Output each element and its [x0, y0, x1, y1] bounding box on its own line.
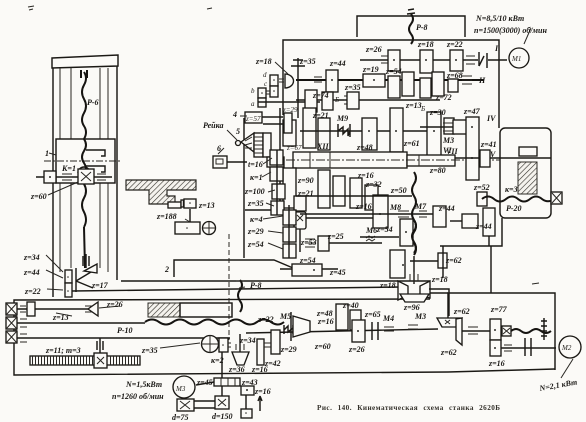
- svg-text:z=34: z=34: [23, 253, 40, 262]
- speed box top edge: [283, 40, 499, 128]
- wire wavy P-6 screw: [82, 72, 86, 139]
- svg-text:z=50: z=50: [390, 186, 407, 195]
- bevel pair z=62: [437, 318, 462, 327]
- svg-text:z=44: z=44: [475, 222, 492, 231]
- wire wavy inside box1: [82, 139, 86, 174]
- cluster M5: [257, 339, 264, 365]
- ratchet M9: [338, 124, 350, 137]
- gear stack right of labels: [270, 150, 283, 165]
- shaft III vertical end: [83, 254, 89, 268]
- svg-text:z=22: z=22: [446, 40, 463, 49]
- belt: [194, 400, 216, 402]
- svg-text:z=11; m=3: z=11; m=3: [45, 346, 81, 355]
- svg-text:d: d: [263, 71, 267, 79]
- svg-text:z=74: z=74: [312, 91, 329, 100]
- svg-text:z=16: z=16: [254, 387, 271, 396]
- bevel z=44: [483, 208, 495, 236]
- svg-text:z=52: z=52: [473, 183, 490, 192]
- motor M3: [173, 376, 195, 398]
- bracket clamp lower: [86, 166, 105, 172]
- wire wavy below box1: [82, 184, 86, 227]
- lower stack k4 z29 z54: [283, 210, 296, 225]
- LAYER: column: [16, 55, 122, 343]
- svg-text:z=54: z=54: [247, 240, 264, 249]
- coupling + wavy: [502, 326, 511, 336]
- svg-text:z=18: z=18: [431, 275, 448, 284]
- svg-text:z=54: z=54: [376, 225, 393, 234]
- svg-text:М2: М2: [561, 344, 572, 352]
- svg-text:z=35: z=35: [344, 83, 361, 92]
- svg-text:М8: М8: [389, 203, 401, 212]
- left wall gear stack: [283, 120, 296, 146]
- coupling box IV: [453, 120, 468, 134]
- gear z=52 + wavy P-20: [477, 192, 487, 206]
- input bevel cluster z=18 top-left: [285, 74, 294, 88]
- housing P-20 box: [500, 128, 551, 218]
- bevel z=60: [293, 316, 310, 337]
- gear z=30 cluster: [427, 112, 441, 160]
- clutch circle z=35: [202, 336, 219, 353]
- rack block: [254, 133, 263, 157]
- LAYER: feedbox: [213, 112, 296, 258]
- shaft M3 to coupling: [196, 382, 214, 385]
- handwheel 6: [213, 156, 227, 168]
- LAYER: speedbox: [258, 28, 562, 255]
- shaft z=45: [280, 268, 338, 270]
- bevel fork z=17: [76, 269, 96, 281]
- pulley d=75: [177, 399, 194, 411]
- marks M3: [408, 325, 418, 329]
- gear z=77 z=16: [490, 319, 501, 340]
- svg-text:z=45: z=45: [329, 268, 346, 277]
- shaft C y338: [17, 337, 230, 339]
- vertical shaft z=35: [297, 58, 299, 118]
- wavy M7: [412, 172, 416, 255]
- worm cone 5: [236, 141, 241, 146]
- svg-text:z=72: z=72: [435, 93, 452, 102]
- svg-text:VI: VI: [443, 146, 452, 155]
- coupling marks: [62, 174, 72, 180]
- svg-text:z=77: z=77: [490, 305, 508, 314]
- gear z=48: [362, 118, 377, 150]
- wire long shaft under box2: [72, 287, 402, 291]
- gear stack z34 z44 z22: [65, 270, 72, 283]
- svg-text:6: 6: [217, 144, 221, 153]
- svg-text:z=16: z=16: [317, 317, 334, 326]
- node centerline: [44, 160, 122, 162]
- svg-text:z=13: z=13: [52, 313, 69, 322]
- gear z=68 pair: [432, 72, 444, 96]
- arrow up: [258, 396, 262, 411]
- gear z=22 shaft I: [450, 50, 463, 71]
- gear z=48 z=16 cluster: [336, 304, 348, 330]
- svg-text:z=22: z=22: [257, 315, 274, 324]
- shaft III: [296, 99, 440, 101]
- svg-text:z=18: z=18: [417, 40, 434, 49]
- shaft under spindle: [296, 195, 412, 197]
- wire shaft out of column: [15, 305, 17, 343]
- shaft V to P-20: [455, 157, 551, 159]
- wire top wavy P-8: [409, 14, 413, 44]
- bracket clamp upper: [86, 150, 105, 156]
- P-20 internals: slide block: [519, 147, 537, 156]
- gear cluster left below spindle: [294, 196, 306, 211]
- gear z=47 tall: [466, 117, 479, 180]
- shaft B y323 wavy P-10: [17, 322, 145, 324]
- gear z=41 small: [480, 150, 490, 167]
- svg-text:a: a: [251, 100, 255, 108]
- gear z=72: [420, 78, 431, 98]
- top bracket box P-8: [357, 16, 465, 37]
- svg-text:1: 1: [45, 149, 49, 158]
- column rails: [52, 68, 54, 297]
- svg-text:М3: М3: [175, 385, 186, 393]
- V-fork z=18 z=18 z=96: [398, 281, 408, 300]
- coupling I: [466, 56, 475, 64]
- gear z=26 lower: [352, 320, 365, 342]
- svg-text:N=1,5кВт: N=1,5кВт: [125, 380, 162, 389]
- below-spindle gear row: [318, 170, 330, 208]
- bed outline: [14, 299, 555, 375]
- column cap: [52, 55, 118, 68]
- shaft K=1: [36, 176, 112, 178]
- svg-text:z=17: z=17: [91, 281, 109, 290]
- bevel fork down z=36: [232, 352, 249, 365]
- gear z=16 small: [241, 386, 254, 395]
- svg-text:d=75: d=75: [172, 413, 189, 422]
- svg-text:z=26: z=26: [365, 45, 382, 54]
- shaft a: [258, 101, 320, 103]
- gear z=44: [326, 70, 338, 92]
- pinion box III: [94, 353, 107, 368]
- svg-text:z=61: z=61: [403, 139, 420, 148]
- svg-text:IV: IV: [486, 114, 496, 123]
- lower right box: [448, 293, 555, 370]
- LAYER: bed: [6, 302, 581, 418]
- coupling M4: [372, 322, 378, 340]
- shaft I: [360, 59, 478, 61]
- svg-text:z=35: z=35: [141, 346, 158, 355]
- gear block z=19: [363, 74, 385, 87]
- svg-text:М7: М7: [414, 202, 427, 211]
- svg-text:М9: М9: [336, 114, 348, 123]
- svg-text:z=43: z=43: [241, 378, 258, 387]
- spindle XII: [293, 152, 407, 168]
- speck top-left: [28, 6, 34, 10]
- bevel z=26: [88, 302, 98, 316]
- svg-text:к=1: к=1: [250, 173, 263, 182]
- shaft M2 lower: [501, 347, 556, 349]
- hatched block bed left: [148, 303, 180, 317]
- svg-text:N=8,5/10 кВт: N=8,5/10 кВт: [475, 14, 524, 23]
- svg-text:Р-6: Р-6: [87, 98, 99, 107]
- svg-text:z=53: z=53: [300, 238, 317, 247]
- small box below z=16: [241, 409, 252, 418]
- svg-text:XII: XII: [316, 142, 329, 151]
- svg-text:z=62: z=62: [453, 307, 470, 316]
- svg-text:z=62: z=62: [440, 348, 457, 357]
- svg-text:z=13: z=13: [198, 201, 215, 210]
- shaft to z=77: [462, 330, 491, 332]
- gear z=61: [390, 108, 403, 152]
- svg-text:z=16: z=16: [355, 202, 372, 211]
- shaft 6 to box: [227, 161, 247, 163]
- gear z=42: [264, 343, 271, 347]
- svg-text:Рис. 140. Кинематическая схема: Рис. 140. Кинематическая схема станка 26…: [317, 404, 501, 412]
- svg-text:z=62: z=62: [445, 256, 462, 265]
- pulley d=150: [215, 396, 229, 409]
- gear z=18 shaft I: [420, 50, 433, 73]
- gear z=50: [402, 72, 414, 96]
- svg-text:II: II: [478, 76, 486, 85]
- gear z=13 small box: [168, 202, 181, 208]
- svg-text:z=44: z=44: [329, 59, 346, 68]
- svg-text:z=60: z=60: [30, 192, 47, 201]
- svg-text:z=16: z=16: [357, 171, 374, 180]
- gear z=57: [245, 112, 262, 123]
- svg-text:z=57: z=57: [245, 115, 261, 123]
- svg-text:z=100: z=100: [244, 187, 265, 196]
- svg-text:z=13: z=13: [405, 101, 422, 110]
- svg-text:Рейка: Рейка: [203, 121, 223, 130]
- rack: [30, 356, 140, 365]
- svg-text:z=44: z=44: [23, 268, 40, 277]
- shaft II: [296, 79, 484, 81]
- shaft z=25: [320, 242, 382, 244]
- svg-text:z=90: z=90: [297, 176, 314, 185]
- gear row shaft III: [305, 90, 317, 112]
- svg-text:z=26: z=26: [348, 345, 365, 354]
- clutch I: [479, 52, 487, 68]
- svg-text:n=1500(3000) об/мин: n=1500(3000) об/мин: [474, 26, 547, 35]
- svg-text:Р-20: Р-20: [506, 204, 522, 213]
- svg-text:z=18: z=18: [255, 57, 272, 66]
- svg-text:z=41: z=41: [480, 140, 497, 149]
- svg-text:к=4: к=4: [250, 215, 263, 224]
- svg-text:d=150: d=150: [212, 412, 233, 421]
- svg-text:b: b: [251, 87, 255, 95]
- svg-text:z=80: z=80: [429, 166, 446, 175]
- hatched block: [518, 162, 537, 194]
- caption leaders left gears: [46, 255, 63, 290]
- main feed shaft y330: [246, 329, 438, 333]
- coupling left: [44, 171, 56, 183]
- svg-text:z=16: z=16: [488, 359, 505, 368]
- shaft II end marks: [462, 76, 472, 84]
- long gear z=45-z=43: [214, 378, 240, 386]
- hatched slide bracket: [126, 180, 196, 204]
- svg-text:z=68: z=68: [446, 71, 463, 80]
- svg-text:М1: М1: [511, 55, 521, 63]
- svg-text:V: V: [490, 150, 496, 159]
- svg-text:Б: Б: [334, 96, 339, 104]
- bearing boxes left: [6, 303, 17, 315]
- svg-text:к=3: к=3: [505, 185, 518, 194]
- svg-text:z=35: z=35: [247, 199, 264, 208]
- svg-text:z=34: z=34: [239, 336, 256, 345]
- svg-text:z=48: z=48: [356, 143, 373, 152]
- wire P20 to lower box: [490, 246, 492, 293]
- svg-text:z=25: z=25: [327, 232, 344, 241]
- svg-text:z=21: z=21: [297, 189, 314, 198]
- svg-text:z=96: z=96: [403, 303, 420, 312]
- svg-text:z=188: z=188: [156, 212, 177, 221]
- svg-text:z=30: z=30: [429, 108, 446, 117]
- svg-text:z=32: z=32: [365, 180, 382, 189]
- svg-text:5: 5: [236, 127, 240, 136]
- svg-text:М3: М3: [414, 312, 426, 321]
- svg-text:z=44: z=44: [438, 204, 455, 213]
- svg-text:z=45: z=45: [196, 378, 213, 387]
- svg-text:z=65: z=65: [364, 310, 381, 319]
- gear z=62 col: [442, 246, 444, 278]
- small gear top z=13: [444, 118, 454, 134]
- shaft A y309: [17, 308, 88, 310]
- coupling M2: [525, 338, 531, 356]
- gear z=60 box: [78, 169, 94, 184]
- svg-text:z=29: z=29: [247, 227, 264, 236]
- svg-text:Р-8: Р-8: [416, 23, 428, 32]
- svg-text:К=1: К=1: [61, 164, 76, 173]
- svg-text:z=40: z=40: [342, 301, 359, 310]
- svg-text:z=18: z=18: [379, 281, 396, 290]
- arc half circle: [78, 167, 90, 173]
- gear z=54: [388, 76, 400, 98]
- dense cluster row XII upper: [303, 108, 316, 148]
- svg-text:М4: М4: [382, 314, 394, 323]
- shaft z=48: [300, 130, 440, 132]
- svg-text:z=60: z=60: [314, 342, 331, 351]
- worm z=188: [189, 209, 191, 222]
- svg-text:z=47: z=47: [463, 107, 481, 116]
- svg-text:n=1260 об/мин: n=1260 об/мин: [112, 392, 164, 401]
- svg-text:z=26: z=26: [106, 300, 123, 309]
- svg-text:М5: М5: [279, 312, 291, 321]
- svg-text:z=29: z=29: [280, 345, 297, 354]
- gear z=26: [388, 50, 400, 71]
- vertical to pulley: [221, 352, 223, 398]
- svg-text:4: 4: [232, 110, 237, 119]
- wavy mid vertical: [412, 220, 416, 253]
- svg-text:z=54: z=54: [299, 256, 316, 265]
- svg-text:z=21: z=21: [312, 111, 329, 120]
- svg-text:z=22: z=22: [24, 287, 41, 296]
- svg-text:Р-10: Р-10: [117, 326, 133, 335]
- svg-text:z=16: z=16: [251, 365, 268, 374]
- box 2 outline: [174, 260, 293, 277]
- svg-text:z=67: z=67: [286, 144, 302, 152]
- wire dashed vertical link: [228, 234, 230, 340]
- gear cluster z54 z62 mid: [400, 219, 413, 246]
- motor M2: [559, 336, 581, 358]
- svg-text:М3: М3: [442, 136, 454, 145]
- P-8 wavy vertical: [238, 280, 242, 312]
- leader lines labels: [48, 62, 288, 288]
- leader lines: [218, 116, 247, 154]
- LAYER: middle: [126, 180, 449, 317]
- svg-text:Р-8: Р-8: [250, 281, 262, 290]
- feed box frame: [243, 118, 245, 258]
- svg-text:2: 2: [164, 265, 169, 274]
- svg-text:z=19: z=19: [362, 65, 379, 74]
- svg-text:z=35: z=35: [299, 57, 316, 66]
- box 1 headstock: [56, 139, 115, 183]
- svg-text:z=54: z=54: [385, 67, 402, 76]
- motor M1: [509, 48, 529, 68]
- vertical feed shaft: [276, 150, 278, 215]
- svg-text:к=2: к=2: [211, 356, 224, 365]
- svg-text:z=36: z=36: [228, 365, 245, 374]
- gears a b c d: [270, 75, 278, 86]
- shaft IV: [420, 126, 466, 128]
- svg-text:t=16: t=16: [248, 160, 263, 169]
